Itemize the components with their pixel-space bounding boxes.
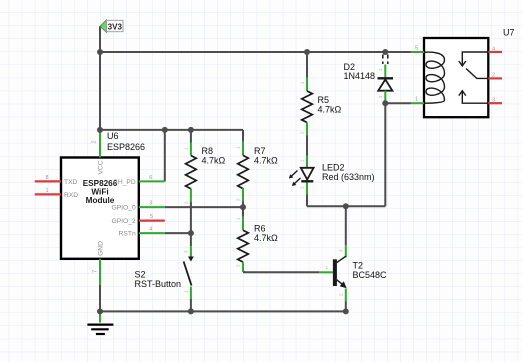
- svg-text:5: 5: [150, 214, 153, 220]
- pin RXD (red, unconnected): [35, 188, 79, 199]
- relay U7 coil: [424, 52, 445, 103]
- relay pin 2 (red): [488, 73, 502, 79]
- wire bus 3V3 horizontal top: [100, 51, 411, 53]
- chip U6 ESP8266 body: [61, 158, 139, 259]
- wire D2 riser down: [384, 103, 386, 206]
- svg-text:S2: S2: [135, 270, 146, 280]
- svg-text:1: 1: [45, 188, 48, 194]
- switch S2 RST-Button: [135, 233, 194, 311]
- svg-text:GND: GND: [98, 241, 105, 256]
- svg-text:1N4148: 1N4148: [344, 71, 376, 81]
- power label 3V3: [100, 20, 123, 33]
- svg-text:U6: U6: [107, 131, 119, 141]
- pin GND (green): [93, 241, 105, 285]
- resistor R8: [186, 130, 226, 233]
- svg-text:GPIO_0: GPIO_0: [112, 205, 136, 212]
- pin TXD (red, unconnected): [35, 175, 78, 186]
- wire RSTn to S2: [165, 232, 191, 234]
- svg-text:CH_PD: CH_PD: [113, 179, 136, 186]
- LED LED2: [289, 156, 375, 207]
- pin CH_PD (green): [113, 175, 165, 186]
- relay U7 box: [424, 28, 515, 118]
- diode D2 1N4148: [344, 55, 394, 104]
- wire ground rail: [100, 310, 346, 312]
- resistor R6: [238, 207, 278, 272]
- pin GPIO_0 (green): [112, 201, 165, 212]
- svg-text:Red (633nm): Red (633nm): [322, 172, 375, 182]
- transistor T2 BC548C: [243, 206, 387, 311]
- pin number marks (faint): [184, 68, 383, 296]
- wire CH_PD riser: [164, 130, 166, 182]
- wire 3V3 vertical to VCC: [99, 26, 101, 130]
- svg-text:4: 4: [492, 46, 495, 52]
- svg-text:R5: R5: [318, 95, 330, 105]
- svg-text:2: 2: [492, 73, 495, 79]
- wire GPIO_0 to R7/R6 node: [165, 206, 243, 208]
- pin VCC (green): [92, 131, 105, 175]
- svg-text:R8: R8: [202, 146, 214, 156]
- svg-text:R6: R6: [254, 224, 266, 234]
- relay pin 4 (red): [488, 46, 502, 52]
- svg-text:1: 1: [415, 97, 418, 103]
- svg-text:6: 6: [149, 175, 152, 181]
- svg-text:3: 3: [492, 98, 495, 104]
- svg-text:LED2: LED2: [322, 163, 345, 173]
- relay pin 5 (green): [411, 46, 424, 53]
- relay pin 3 (red): [488, 98, 502, 104]
- svg-text:8: 8: [45, 175, 48, 181]
- svg-text:RXD: RXD: [64, 192, 78, 199]
- label U6 ESP8266: [107, 131, 145, 152]
- svg-text:RSTn: RSTn: [119, 231, 136, 238]
- svg-text:R7: R7: [254, 146, 266, 156]
- svg-text:5: 5: [415, 46, 418, 52]
- wire GND pin drop: [99, 285, 101, 312]
- svg-text:2: 2: [92, 140, 98, 143]
- relay pin 1 (green): [411, 97, 424, 104]
- svg-text:4.7kΩ: 4.7kΩ: [318, 105, 342, 115]
- resistor R7: [238, 130, 278, 207]
- svg-text:4.7kΩ: 4.7kΩ: [254, 233, 278, 243]
- pin GPIO_2 (red, unconnected): [112, 214, 165, 225]
- svg-text:7: 7: [93, 270, 99, 273]
- svg-text:3: 3: [149, 201, 152, 207]
- svg-text:4: 4: [149, 227, 152, 233]
- svg-text:4.7kΩ: 4.7kΩ: [254, 156, 278, 166]
- resistor R5: [302, 52, 342, 156]
- svg-text:3V3: 3V3: [108, 22, 123, 31]
- junction node dots: [97, 49, 388, 314]
- svg-text:U7: U7: [503, 28, 515, 38]
- wire LED rail: [307, 205, 385, 207]
- ground symbol: [87, 311, 113, 334]
- pin RSTn (green): [119, 227, 165, 238]
- svg-text:Module: Module: [86, 196, 115, 205]
- svg-text:T2: T2: [353, 261, 364, 271]
- svg-text:VCC: VCC: [98, 160, 105, 174]
- relay U7 switch contacts: [459, 52, 489, 103]
- wire bus row2 horizontal: [100, 129, 243, 131]
- svg-text:GPIO_2: GPIO_2: [112, 218, 136, 225]
- svg-text:4.7kΩ: 4.7kΩ: [202, 156, 226, 166]
- svg-text:BC548C: BC548C: [353, 270, 388, 280]
- wire relay pin1 row: [385, 102, 411, 104]
- svg-text:ESP8266: ESP8266: [107, 142, 145, 152]
- svg-text:RST-Button: RST-Button: [135, 279, 182, 289]
- svg-text:TXD: TXD: [64, 179, 78, 186]
